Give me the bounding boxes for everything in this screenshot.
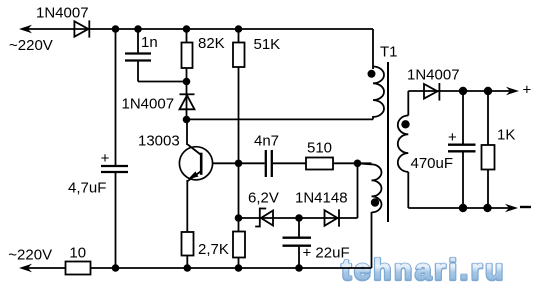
wire base node down to zener rail xyxy=(238,163,240,231)
node clamp RC junction xyxy=(183,78,191,86)
transformer T1 feedback winding xyxy=(372,164,382,212)
svg-text:1K: 1K xyxy=(497,127,515,144)
node zener rail / base branch xyxy=(235,214,243,222)
diode D2 1N4007 clamp (cathode up) xyxy=(186,82,188,120)
wire left rail (live) xyxy=(115,29,117,165)
svg-text:~220V: ~220V xyxy=(8,246,52,263)
arrow output plus xyxy=(506,87,519,95)
node plus rail / 470uF xyxy=(459,87,467,95)
node 510 / feedback winding junction xyxy=(354,160,362,168)
resistor R6 10 xyxy=(66,262,91,275)
capacitor C3 4n7 xyxy=(265,150,267,177)
node junction top rail / left rail xyxy=(112,25,120,33)
svg-text:1N4007: 1N4007 xyxy=(407,67,460,84)
arrow input top xyxy=(19,25,32,33)
wire emitter vertical xyxy=(186,180,188,232)
transformer core xyxy=(387,62,389,222)
node minus rail / 470uF xyxy=(459,204,467,212)
svg-text:1N4007: 1N4007 xyxy=(36,5,89,22)
node feedback phase dot xyxy=(371,198,379,206)
node junction top rail / 51K xyxy=(235,25,243,33)
transformer T1 secondary winding xyxy=(398,116,409,172)
resistor R4 base-bleed (2,7K pair right) xyxy=(233,232,245,258)
wire collector vertical xyxy=(186,120,188,146)
capacitor C4 22uF xyxy=(298,218,300,237)
svg-text:4,7uF: 4,7uF xyxy=(68,180,106,197)
label minus output xyxy=(520,206,531,208)
capacitor C2 1n with wires xyxy=(137,29,139,52)
node minus rail / 1K xyxy=(483,204,491,212)
node secondary phase dot xyxy=(401,120,409,128)
wire secondary top xyxy=(407,91,409,116)
node base junction xyxy=(235,160,243,168)
resistor R2 51K xyxy=(238,29,240,43)
svg-text:T1: T1 xyxy=(380,44,398,61)
svg-text:+: + xyxy=(523,81,532,98)
arrow input bottom xyxy=(19,264,32,272)
wire zener rail xyxy=(239,217,358,219)
wire base lead xyxy=(213,162,265,164)
svg-text:10: 10 xyxy=(69,245,86,262)
svg-text:510: 510 xyxy=(307,140,332,157)
wire bottom rail xyxy=(24,267,66,269)
capacitor C1 4,7uF xyxy=(101,165,128,167)
svg-text:+: + xyxy=(448,129,457,146)
wire 510 node to feedback top xyxy=(358,163,372,164)
wire secondary bottom xyxy=(407,172,409,208)
resistor R1 82K xyxy=(186,29,188,43)
resistor R5 emitter (2,7K pair left) xyxy=(182,232,194,256)
svg-text:4n7: 4n7 xyxy=(254,133,279,150)
resistor R7 1K xyxy=(487,91,489,145)
node plus rail / 1K xyxy=(484,87,492,95)
transistor Q1 13003 xyxy=(179,147,212,180)
svg-text:~220V: ~220V xyxy=(9,37,53,54)
zener D5 6,2V (cathode left) xyxy=(261,211,273,226)
resistor R3 510 xyxy=(306,158,333,170)
node bottom rail / 4,7uF xyxy=(112,264,120,272)
capacitor C5 470uF xyxy=(462,91,464,144)
svg-text:1N4148: 1N4148 xyxy=(295,190,348,207)
wire output minus rail xyxy=(408,207,512,209)
wire collector to primary bottom xyxy=(187,118,374,120)
svg-text:13003: 13003 xyxy=(138,133,180,150)
wire bottom rail up to feedback winding xyxy=(371,212,373,268)
diode D1 1N4007 input xyxy=(74,21,88,36)
svg-text:2,7K: 2,7K xyxy=(198,241,229,258)
node junction top rail / 82K xyxy=(183,25,191,33)
wire top rail xyxy=(24,28,373,30)
wire 1n bottom to clamp node xyxy=(138,81,187,83)
svg-text:1N4007: 1N4007 xyxy=(122,96,175,113)
svg-text:1n: 1n xyxy=(141,34,158,51)
node junction top rail / 1n xyxy=(134,25,142,33)
node collector junction xyxy=(183,116,191,124)
svg-text:tehnari.ru: tehnari.ru xyxy=(342,254,507,286)
arrow output minus xyxy=(505,204,518,212)
wire bottom rail right of 10 xyxy=(91,267,372,269)
node bottom rail / 22uF xyxy=(295,264,303,272)
node primary phase dot xyxy=(368,70,376,78)
diode D4 1N4007 output xyxy=(424,84,438,99)
node bottom rail / emitter resistor xyxy=(184,264,192,272)
svg-text:+ 22uF: + 22uF xyxy=(303,245,350,262)
wire top rail to primary top xyxy=(372,29,374,69)
diode D3 1N4148 xyxy=(325,210,338,226)
wire junction down to 1N4148 xyxy=(357,163,359,218)
svg-text:6,2V: 6,2V xyxy=(248,190,279,207)
node zener / 1N4148 / 22uF junction xyxy=(295,214,303,222)
transformer T1 primary winding xyxy=(373,67,384,120)
svg-text:470uF: 470uF xyxy=(411,155,454,172)
svg-text:+: + xyxy=(101,150,110,167)
svg-text:51K: 51K xyxy=(254,36,281,53)
svg-text:82K: 82K xyxy=(198,35,225,52)
node bottom rail / base-bleed resistor xyxy=(235,264,243,272)
wire output plus rail xyxy=(408,90,512,92)
